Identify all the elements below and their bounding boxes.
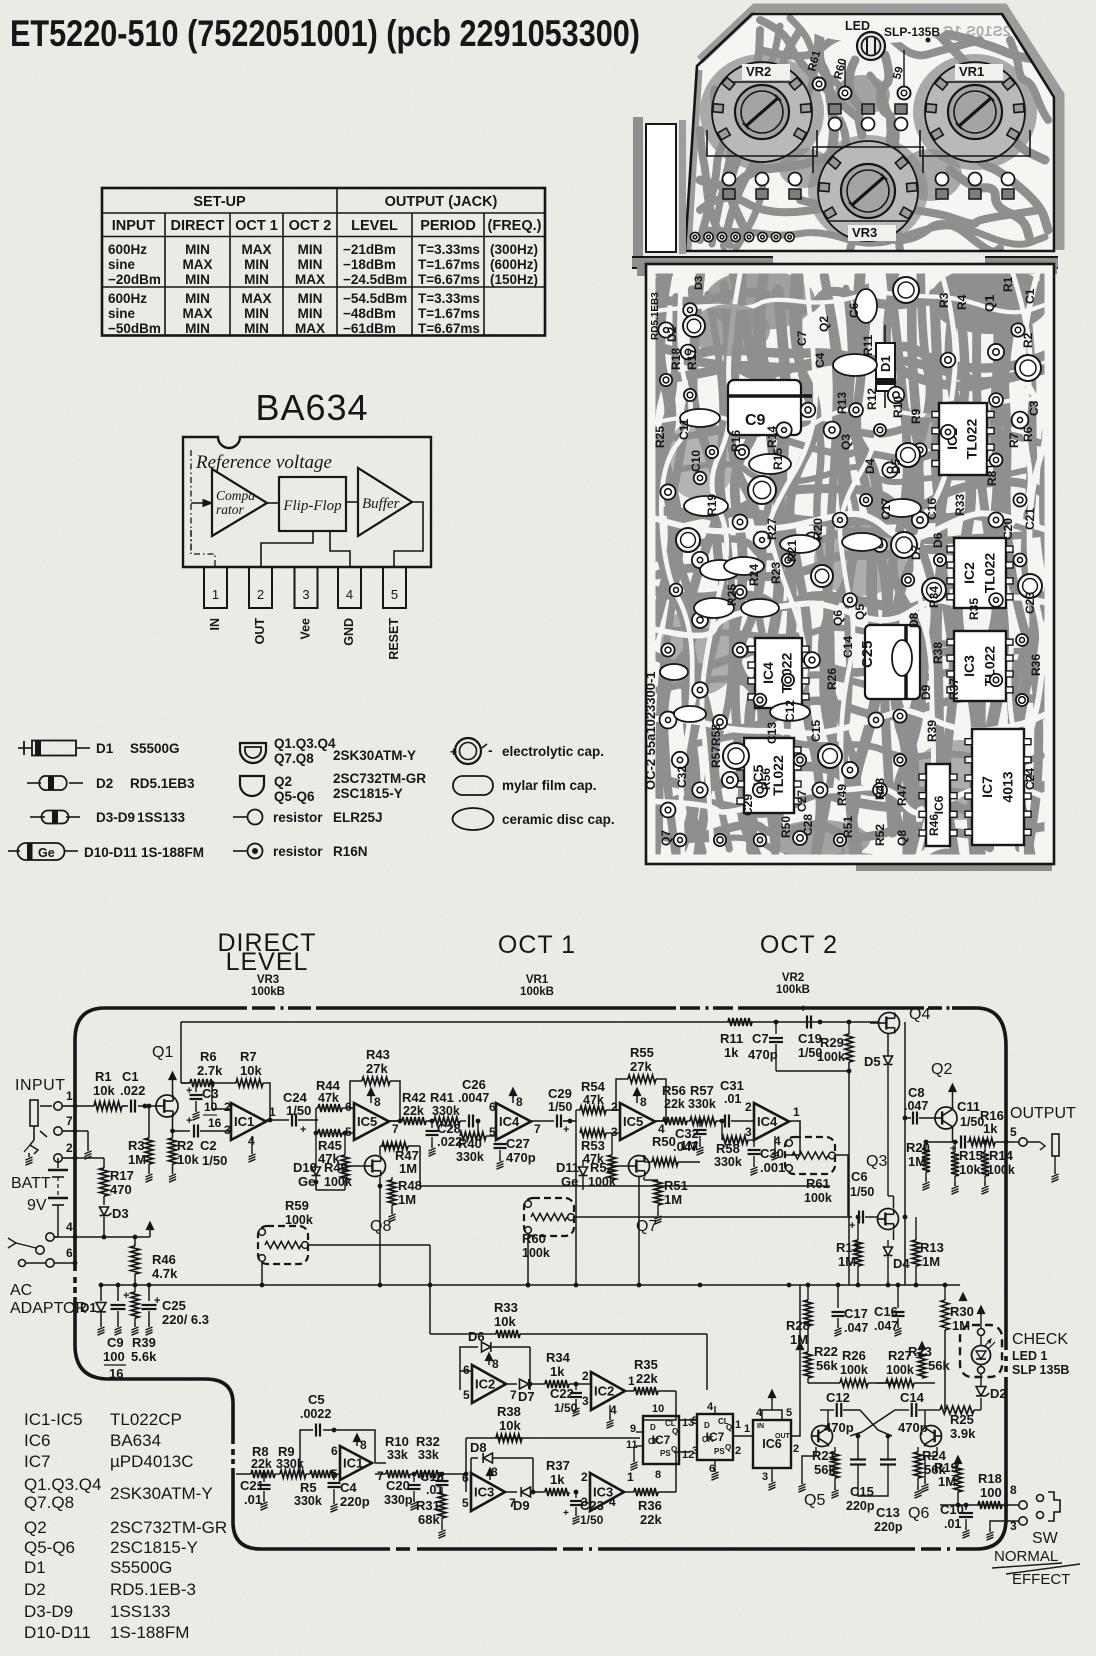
- top rail of flip-flop section: [790, 1284, 960, 1286]
- LED1 symbol: [972, 1346, 991, 1365]
- wire Q4 source down + diode D5: [887, 1034, 889, 1052]
- svg-text:8: 8: [492, 1357, 499, 1371]
- BA634 pin 1 (IN): [204, 567, 227, 608]
- capacitor C27 470p: [495, 1136, 497, 1141]
- svg-text:EFFECT: EFFECT: [1012, 1571, 1070, 1588]
- svg-text:D10-D11: D10-D11: [84, 845, 138, 860]
- svg-text:MIN: MIN: [185, 291, 210, 306]
- legend ceramic disc cap: [453, 808, 494, 830]
- svg-text:Q7.Q8: Q7.Q8: [274, 751, 314, 766]
- svg-text:R4: R4: [955, 294, 969, 310]
- LED1 dashed check box: [960, 1325, 1002, 1377]
- Q5 emitter ground: [815, 1447, 817, 1456]
- svg-text:R51: R51: [841, 816, 855, 838]
- svg-text:OC-2 55a1023300-1: OC-2 55a1023300-1: [643, 671, 658, 790]
- svg-text:R12: R12: [836, 1240, 860, 1255]
- svg-text:6: 6: [331, 1444, 338, 1458]
- svg-text:C31: C31: [720, 1078, 744, 1093]
- svg-text:OUTPUT: OUTPUT: [1010, 1105, 1076, 1122]
- svg-text:R60: R60: [522, 1231, 546, 1246]
- svg-text:−54.5dBm: −54.5dBm: [343, 291, 407, 306]
- wire Q8 source: [379, 1177, 381, 1186]
- svg-text:5: 5: [489, 1125, 496, 1139]
- svg-text:LEVEL: LEVEL: [351, 218, 398, 234]
- svg-text:3: 3: [692, 1445, 698, 1457]
- svg-text:2: 2: [224, 1100, 231, 1114]
- svg-text:3: 3: [762, 1471, 768, 1483]
- svg-text:RD5.1EB3: RD5.1EB3: [130, 776, 195, 791]
- ground bus wire: [101, 1284, 430, 1286]
- capacitor C16 .047: [897, 1285, 899, 1308]
- svg-text:2: 2: [745, 1100, 752, 1114]
- svg-text:Q7.Q8: Q7.Q8: [24, 1493, 74, 1512]
- svg-text:MIN: MIN: [185, 321, 210, 336]
- resistor R43 27k feedback: [350, 1081, 362, 1108]
- transistor Q7: [629, 1156, 650, 1177]
- svg-text:1/50: 1/50: [286, 1103, 311, 1118]
- svg-text:SET-UP: SET-UP: [193, 194, 246, 210]
- svg-text:C17: C17: [844, 1306, 868, 1321]
- svg-text:VR3: VR3: [852, 225, 877, 240]
- svg-text:Q: Q: [671, 1445, 677, 1454]
- input jack contact pin 7: [54, 1127, 62, 1135]
- svg-text:D3-D9: D3-D9: [24, 1602, 73, 1621]
- IC4 Vcc arrow: [512, 1094, 514, 1103]
- transistor Q2: [935, 1107, 957, 1129]
- svg-text:R6: R6: [200, 1049, 217, 1064]
- svg-text:T=6.67ms: T=6.67ms: [418, 321, 480, 336]
- svg-text:56k: 56k: [816, 1358, 838, 1373]
- svg-text:IC1-IC5: IC1-IC5: [24, 1410, 83, 1429]
- outline bottom-right corner: [976, 1519, 1006, 1549]
- svg-text:R40: R40: [458, 1136, 482, 1151]
- svg-text:Q2: Q2: [817, 316, 831, 332]
- separator bars: [632, 257, 773, 268]
- wire IC2 inputs: [460, 1370, 472, 1372]
- svg-text:R9: R9: [909, 408, 923, 424]
- svg-text:R56: R56: [759, 768, 773, 790]
- wire from boundary to R8: [236, 1473, 251, 1475]
- wire Q4 gate: [870, 1022, 879, 1024]
- input jack symbol: [30, 1100, 38, 1126]
- svg-text:27k: 27k: [366, 1061, 388, 1076]
- potentiometer VR3: [818, 141, 918, 241]
- transistor Q6: [921, 1426, 942, 1447]
- diode D8 loop: [471, 1457, 478, 1459]
- svg-text:Q2: Q2: [931, 1061, 952, 1078]
- resistor R23 56k: [918, 1352, 926, 1378]
- svg-text:2: 2: [735, 1445, 741, 1457]
- svg-text:OUT: OUT: [775, 1433, 791, 1440]
- op-amp IC1 (B): [340, 1446, 372, 1480]
- svg-text:C17: C17: [879, 498, 893, 520]
- svg-text:−20dBm: −20dBm: [108, 272, 161, 287]
- svg-text:C3: C3: [202, 1086, 219, 1101]
- bus junction dots: [526, 1283, 531, 1288]
- svg-text:3: 3: [581, 1495, 588, 1509]
- resistor R35 22k: [634, 1387, 658, 1395]
- svg-text:AC: AC: [10, 1282, 32, 1299]
- resistor R2 10k: [169, 1138, 177, 1164]
- svg-text:7: 7: [510, 1388, 517, 1402]
- svg-text:100k: 100k: [886, 1363, 914, 1377]
- svg-text:1k: 1k: [550, 1472, 565, 1487]
- svg-text:8: 8: [374, 1095, 381, 1109]
- capacitor C28 .022: [431, 1121, 433, 1128]
- svg-text:R19: R19: [705, 494, 719, 516]
- pcb outline stroke: [685, 14, 1054, 251]
- svg-text:R18: R18: [669, 348, 683, 370]
- svg-text:D1: D1: [96, 741, 114, 756]
- svg-text:R6: R6: [1021, 426, 1035, 442]
- svg-text:8: 8: [655, 1469, 661, 1481]
- svg-text:5: 5: [462, 1496, 469, 1510]
- svg-text:S5500G: S5500G: [130, 741, 180, 756]
- Q2 collector Vcc arrow: [952, 1090, 954, 1108]
- svg-text:C29: C29: [548, 1086, 572, 1101]
- svg-text:C26: C26: [462, 1077, 486, 1092]
- resistor R40 330k: [477, 1121, 479, 1136]
- svg-text:VR2: VR2: [782, 972, 804, 984]
- svg-text:D1: D1: [878, 355, 893, 372]
- wire Q6 collector: [924, 1410, 926, 1426]
- pads R61 R60 59: [813, 78, 826, 91]
- svg-text:+: +: [800, 1003, 806, 1015]
- Vcc arrow R30 top: [962, 1299, 964, 1300]
- svg-text:47k: 47k: [318, 1091, 339, 1105]
- adaptor contact: [19, 1260, 26, 1267]
- IC IC3 TL022: [954, 631, 1006, 701]
- svg-text:C11: C11: [957, 1099, 980, 1114]
- svg-text:OUT: OUT: [253, 618, 267, 645]
- svg-text:(300Hz): (300Hz): [490, 242, 538, 257]
- wire flip-flop to GND pin: [330, 531, 350, 567]
- op-amp IC2: [472, 1365, 506, 1403]
- capacitor C29 1/50: [556, 1115, 558, 1128]
- resistor R25 3.9k: [940, 1406, 974, 1414]
- svg-text:ADAPTOR: ADAPTOR: [10, 1300, 87, 1317]
- svg-text:R2: R2: [1021, 332, 1035, 348]
- resistor R12 1M: [854, 1240, 862, 1266]
- svg-text:9: 9: [630, 1423, 636, 1435]
- wire C5 to IC1B loop: [334, 1430, 375, 1463]
- legend transistor 2SC732TM-GR / 2SC1815-Y: [240, 776, 264, 796]
- svg-text:Q5-Q6: Q5-Q6: [274, 789, 315, 804]
- legend transistor 2SK30ATM-Y: [240, 743, 266, 763]
- svg-text:R59: R59: [285, 1198, 309, 1213]
- svg-text:C12: C12: [783, 700, 797, 722]
- svg-text:4013: 4013: [1000, 771, 1016, 802]
- svg-text:R7: R7: [1007, 432, 1021, 448]
- svg-text:C32: C32: [675, 766, 689, 788]
- op-amp IC2 (B): [591, 1372, 625, 1410]
- pads (lower board): [683, 303, 697, 317]
- svg-text:R34: R34: [546, 1350, 571, 1365]
- svg-text:R31: R31: [416, 1498, 440, 1513]
- svg-text:IC2: IC2: [594, 1384, 614, 1399]
- svg-text:100k: 100k: [804, 1191, 832, 1205]
- outline top-left corner: [75, 1008, 105, 1040]
- input jack contact pin 1: [54, 1102, 62, 1110]
- svg-text:D3: D3: [693, 276, 705, 290]
- svg-text:5.6k: 5.6k: [131, 1349, 157, 1364]
- svg-text:C1: C1: [122, 1069, 139, 1084]
- svg-text:4.7k: 4.7k: [152, 1266, 178, 1281]
- svg-text:3: 3: [582, 1394, 589, 1408]
- svg-text:D: D: [704, 1421, 710, 1430]
- svg-text:1/50: 1/50: [554, 1401, 578, 1415]
- svg-text:C12: C12: [826, 1390, 850, 1405]
- Q6 emitter ground: [936, 1447, 938, 1456]
- resistor R36 22k: [634, 1488, 658, 1496]
- svg-text:22k: 22k: [636, 1371, 658, 1386]
- svg-text:100kB: 100kB: [251, 986, 285, 998]
- svg-text:MIN: MIN: [298, 306, 323, 321]
- svg-text:1M: 1M: [922, 1254, 940, 1269]
- resistor R7 10k: [236, 1079, 263, 1087]
- svg-text:2SC1815-Y: 2SC1815-Y: [333, 786, 403, 801]
- svg-text:R11: R11: [720, 1031, 743, 1046]
- svg-text:R48: R48: [873, 778, 887, 800]
- svg-text:C24: C24: [1023, 768, 1037, 790]
- wire Q8 drain to R48: [379, 1146, 381, 1155]
- outline notch top edge: [109, 1377, 205, 1381]
- svg-text:22k: 22k: [640, 1512, 662, 1527]
- svg-text:-: -: [488, 742, 493, 758]
- svg-text:C9: C9: [745, 412, 766, 429]
- svg-text:BATT: BATT: [11, 1175, 51, 1192]
- big cap C9: [728, 380, 801, 435]
- IC6 ground pin3: [771, 1468, 773, 1478]
- outline top-right corner: [976, 1008, 1006, 1046]
- svg-text:R30: R30: [950, 1304, 974, 1319]
- capacitor C5 .0022 loop: [300, 1430, 313, 1474]
- svg-text:IC5: IC5: [357, 1114, 377, 1129]
- wire IC4B out: [789, 1121, 800, 1135]
- svg-text:22k: 22k: [251, 1457, 272, 1471]
- wire pot R60 wiper to C6: [574, 1216, 852, 1218]
- pot R61 100k (VR2): [785, 1137, 835, 1174]
- svg-text:Buffer: Buffer: [362, 496, 400, 512]
- svg-text:Q5-Q6: Q5-Q6: [24, 1538, 75, 1557]
- svg-text:IC4: IC4: [760, 662, 776, 684]
- svg-text:R27: R27: [765, 518, 779, 540]
- svg-text:8: 8: [1010, 1483, 1017, 1497]
- resistor R19 1M: [954, 1466, 962, 1492]
- svg-text:C11: C11: [677, 418, 691, 440]
- resistor R22 56k: [804, 1352, 812, 1378]
- svg-text:Ge: Ge: [38, 846, 55, 860]
- svg-text:2SK30ATM-Y: 2SK30ATM-Y: [110, 1484, 213, 1503]
- wire pot R61 wiper down: [835, 1155, 848, 1217]
- resistor R28 1M: [804, 1300, 812, 1326]
- svg-text:MAX: MAX: [242, 242, 272, 257]
- svg-text:R47: R47: [895, 784, 909, 806]
- svg-text:3.9k: 3.9k: [950, 1426, 976, 1441]
- resistor R53 47k: [580, 1129, 606, 1137]
- svg-text:22k: 22k: [664, 1097, 685, 1111]
- resistor R57 330k: [690, 1117, 716, 1125]
- svg-text:C13: C13: [765, 722, 779, 744]
- capacitor C20 330p: [413, 1474, 415, 1482]
- svg-text:C1: C1: [1023, 288, 1037, 304]
- svg-text:D2: D2: [24, 1580, 46, 1599]
- R22 Vcc arrow: [799, 1348, 801, 1350]
- svg-text:+: +: [154, 1295, 160, 1307]
- svg-text:Q1.Q3.Q4: Q1.Q3.Q4: [24, 1475, 101, 1494]
- svg-text:R16N: R16N: [333, 844, 368, 859]
- svg-text:R49: R49: [835, 784, 849, 806]
- svg-text:1M: 1M: [838, 1254, 856, 1269]
- svg-text:1: 1: [66, 1089, 73, 1103]
- outline notch vertical (dash-dot): [231, 1403, 235, 1444]
- svg-text:600Hz: 600Hz: [108, 242, 147, 257]
- svg-text:7: 7: [66, 1114, 73, 1128]
- svg-text:C4: C4: [813, 352, 827, 368]
- svg-text:100: 100: [980, 1485, 1002, 1500]
- capacitor C22 1/50: [575, 1384, 577, 1390]
- wire IC3 out + diode D9: [505, 1491, 517, 1493]
- svg-text:R57: R57: [709, 746, 723, 768]
- svg-text:D7: D7: [909, 544, 923, 560]
- svg-text:Q1.Q3.Q4: Q1.Q3.Q4: [274, 736, 336, 751]
- capacitor C26 .0047: [460, 1120, 466, 1122]
- svg-text:Q5: Q5: [853, 604, 867, 620]
- capacitor C24 1/50: [291, 1114, 293, 1127]
- transistor Q3: [878, 1209, 899, 1230]
- svg-text:R56: R56: [662, 1083, 686, 1098]
- svg-text:+: +: [186, 1085, 192, 1097]
- svg-text:1M: 1M: [908, 1154, 926, 1169]
- svg-text:D4: D4: [863, 458, 877, 474]
- svg-text:VR3: VR3: [257, 974, 279, 986]
- svg-text:INPUT: INPUT: [15, 1077, 66, 1094]
- svg-text:R51: R51: [664, 1178, 688, 1193]
- legend resistor ELR25J: [233, 816, 248, 818]
- C13/C15 bottom join: [858, 1490, 888, 1496]
- svg-text:OCT 2: OCT 2: [289, 218, 332, 234]
- svg-text:1/50: 1/50: [850, 1185, 874, 1199]
- svg-text:R26: R26: [842, 1348, 866, 1363]
- svg-text:330k: 330k: [688, 1097, 716, 1111]
- capacitor C10 .01: [965, 1505, 967, 1510]
- svg-text:100k: 100k: [324, 1175, 352, 1189]
- svg-text:IC3: IC3: [961, 655, 977, 677]
- svg-text:CK: CK: [648, 1437, 660, 1446]
- wire D11 bottom down: [582, 1182, 584, 1285]
- svg-text:IC1: IC1: [343, 1456, 363, 1471]
- svg-text:R19: R19: [934, 1460, 958, 1475]
- svg-text:R24: R24: [747, 564, 761, 586]
- svg-text:R42: R42: [402, 1090, 426, 1105]
- svg-text:CK: CK: [702, 1435, 714, 1444]
- schematic board outline top edge (dash-dot): [105, 1006, 247, 1010]
- svg-text:T=1.67ms: T=1.67ms: [418, 257, 480, 272]
- svg-text:Q: Q: [725, 1443, 731, 1452]
- svg-text:R46: R46: [152, 1252, 176, 1267]
- svg-text:C14: C14: [900, 1390, 925, 1405]
- svg-text:C20: C20: [1001, 518, 1015, 540]
- svg-text:C15: C15: [850, 1484, 874, 1499]
- svg-text:6: 6: [345, 1100, 352, 1114]
- svg-text:16: 16: [208, 1116, 222, 1130]
- svg-text:+: +: [563, 1508, 569, 1519]
- table frame: [102, 188, 545, 336]
- svg-text:D9: D9: [513, 1498, 530, 1513]
- svg-text:MAX: MAX: [183, 257, 213, 272]
- outline right edge (dash-dot): [1004, 1046, 1008, 1350]
- resistor R39 5.6k: [131, 1292, 139, 1318]
- wire Q4 drain down right: [894, 1005, 896, 1012]
- wire Q6 emitter to R19 row: [936, 1447, 938, 1456]
- svg-text:R2: R2: [177, 1138, 194, 1153]
- svg-text:100k: 100k: [817, 1050, 845, 1064]
- svg-text:.01: .01: [724, 1092, 741, 1106]
- IC5B Vcc arrow: [636, 1094, 638, 1103]
- svg-text:.047: .047: [904, 1099, 928, 1113]
- svg-text:TL022: TL022: [779, 653, 795, 694]
- svg-text:7: 7: [392, 1122, 399, 1136]
- svg-text:R25: R25: [950, 1412, 974, 1427]
- wire R29 bottom down: [775, 1052, 777, 1071]
- svg-text:2: 2: [581, 1470, 588, 1484]
- svg-text:3: 3: [224, 1123, 231, 1137]
- IC2B ground: [609, 1405, 611, 1416]
- capacitor C19 1/50: [806, 1016, 808, 1029]
- svg-text:5: 5: [692, 1415, 698, 1427]
- resistor R46 4.7k: [131, 1246, 140, 1274]
- svg-text:1k: 1k: [724, 1045, 739, 1060]
- svg-text:MIN: MIN: [185, 272, 210, 287]
- svg-text:R15: R15: [959, 1148, 983, 1163]
- svg-text:R25: R25: [653, 426, 667, 448]
- legend mylar film cap: [453, 776, 493, 795]
- resistor R37 1k: [545, 1488, 569, 1496]
- svg-text:−24.5dBm: −24.5dBm: [343, 272, 407, 287]
- svg-text:PS: PS: [714, 1447, 725, 1456]
- svg-text:R43: R43: [366, 1047, 390, 1062]
- wire Q7 source down: [643, 1186, 645, 1285]
- output jack symbol: [1027, 1141, 1040, 1143]
- svg-text:R33: R33: [953, 494, 967, 516]
- svg-text:R38: R38: [931, 642, 945, 664]
- outline left edge: [73, 1040, 77, 1271]
- wire R33 to IC2 loop: [706, 1334, 708, 1390]
- svg-text:LEVEL: LEVEL: [226, 948, 309, 976]
- svg-text:6: 6: [489, 1100, 496, 1114]
- svg-text:R17: R17: [110, 1168, 134, 1183]
- svg-text:10k: 10k: [93, 1083, 115, 1098]
- svg-text:1S-188FM: 1S-188FM: [110, 1623, 189, 1642]
- svg-text:2: 2: [257, 587, 264, 602]
- svg-text:Q2: Q2: [274, 774, 292, 789]
- junction + C28: [430, 1119, 435, 1124]
- svg-text:470p: 470p: [898, 1420, 928, 1435]
- svg-text:R8: R8: [985, 470, 999, 486]
- svg-text:R39: R39: [132, 1335, 156, 1350]
- svg-text:D2: D2: [665, 326, 679, 342]
- wire from R61 wiper region to C8: [885, 1075, 887, 1118]
- svg-text:−50dBm: −50dBm: [108, 321, 161, 336]
- svg-text:mylar film cap.: mylar film cap.: [502, 778, 597, 793]
- svg-text:600Hz: 600Hz: [108, 291, 147, 306]
- wire R49 to Q8 gate: [344, 1180, 346, 1190]
- resistor R42 22k: [402, 1117, 426, 1125]
- svg-text:D3-D9: D3-D9: [96, 810, 135, 825]
- svg-text:R21: R21: [785, 540, 799, 562]
- svg-text:1SS133: 1SS133: [110, 1602, 171, 1621]
- svg-text:C18: C18: [420, 1469, 444, 1484]
